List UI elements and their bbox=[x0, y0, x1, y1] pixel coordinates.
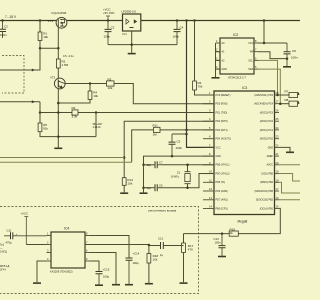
resistor R3 bbox=[107, 78, 115, 91]
dashed box: left connector (cut off) bbox=[2, 56, 24, 94]
wire VT2 base to R3 bbox=[65, 83, 107, 85]
ground IC3 pin22 bbox=[286, 152, 294, 154]
wire R17 top lead bbox=[183, 234, 185, 243]
ground R18 bbox=[145, 283, 153, 285]
svg-text:WP: WP bbox=[250, 51, 254, 54]
ground C14 bbox=[125, 284, 133, 286]
crystal Z1 bbox=[171, 165, 191, 188]
wire +VCC to IC4 pin 2 bbox=[26, 244, 46, 246]
wire IC1 ground pin bbox=[131, 31, 133, 53]
ground IC2 inputs bbox=[212, 77, 220, 79]
wire IC2 pins 1-4 to ground bus bbox=[215, 43, 217, 77]
svg-text:IC4: IC4 bbox=[64, 227, 69, 231]
IC U: IC3 ATmega8 body bbox=[214, 91, 275, 215]
IC3 pin 26 ((ADC3) PC3) bbox=[275, 112, 280, 114]
wire IC3 pin 22 GND bbox=[279, 147, 290, 151]
wire R4 top lead bbox=[89, 84, 91, 92]
capacitor C7 bbox=[147, 161, 164, 169]
wire R1 bottom lead bbox=[39, 41, 41, 49]
junction +5V rail/IC3 VCC line bbox=[185, 19, 188, 22]
capacitor C5 bbox=[169, 134, 183, 156]
svg-text:100μ: 100μ bbox=[103, 275, 110, 279]
resistor R4 bbox=[88, 91, 98, 100]
svg-text:—: — bbox=[0, 247, 3, 250]
junction R1/gate node bbox=[39, 47, 42, 50]
wire: +7..18V input rail (top horizontal) bbox=[0, 20, 300, 22]
wire IC2 WP (pin 7) to ground net bbox=[259, 52, 288, 59]
wire VT2 emitter down bbox=[57, 89, 59, 148]
transistor VT2 (NPN) bbox=[50, 76, 65, 89]
capacitor C12 bbox=[158, 236, 164, 257]
svg-text:10k: 10k bbox=[127, 181, 132, 185]
resistor R13 bbox=[122, 178, 133, 186]
IC3 pin 23 ((ADC0) PC0) bbox=[275, 138, 280, 140]
junction rail/R6 pullup bbox=[193, 19, 196, 22]
svg-text:+C15: +C15 bbox=[103, 268, 110, 272]
wire R6 to IC3 pin 1 (RESET) bbox=[195, 90, 215, 95]
svg-text:10k: 10k bbox=[153, 257, 158, 261]
IC3 pin 14 (PB0 (ICP1)) bbox=[203, 208, 214, 210]
svg-text:PD1 (TXD): PD1 (TXD) bbox=[216, 111, 228, 114]
svg-text:+C14: +C14 bbox=[133, 252, 140, 256]
svg-text:C7: C7 bbox=[159, 161, 163, 165]
ground IC4 pin4 bbox=[33, 282, 41, 284]
junction pin4 drop/left line bbox=[123, 156, 126, 159]
IC3 pin 9 (PB6 (XTAL1)) bbox=[203, 164, 214, 166]
capacitor C13 bbox=[214, 234, 226, 256]
svg-text:100n: 100n bbox=[0, 33, 7, 37]
svg-text:R9: R9 bbox=[72, 106, 76, 110]
wire R3 to IC3 pin 2 bbox=[114, 84, 214, 104]
svg-text:(ADC1) PC1: (ADC1) PC1 bbox=[260, 129, 274, 132]
svg-text:KA2209 (TDA2822): KA2209 (TDA2822) bbox=[50, 270, 73, 274]
svg-text:(ADC5/SCL) PC5: (ADC5/SCL) PC5 bbox=[254, 94, 273, 97]
ground R13 bbox=[120, 192, 128, 194]
svg-text:C11: C11 bbox=[7, 229, 12, 233]
ground C8 bbox=[283, 66, 291, 68]
transistor VT1 (P-MOSFET FQU11P06) bbox=[48, 11, 67, 28]
IC3 pin 20 (AVCC) bbox=[275, 164, 280, 166]
wire IC3 pin 27 SDA with pullup bbox=[279, 103, 289, 105]
node +VCC label at IC4 bbox=[21, 212, 29, 245]
svg-text:1.5M: 1.5M bbox=[62, 63, 69, 67]
junction R4/base line bbox=[89, 82, 92, 85]
wire IC3 pin 16 to edge bbox=[279, 199, 300, 201]
svg-text:PD5 (T1): PD5 (T1) bbox=[216, 181, 226, 184]
wire VT1 gate lead bbox=[57, 26, 59, 48]
junction R1/top rail bbox=[39, 19, 42, 22]
resistor R11 bbox=[153, 124, 161, 137]
svg-text:C12: C12 bbox=[158, 236, 164, 240]
IC4 pin 7 bbox=[85, 244, 90, 246]
svg-text:100n: 100n bbox=[176, 146, 183, 150]
wire R5 bottom to emitter/ground run bbox=[40, 132, 96, 137]
junction pin5/+5V rail bbox=[185, 129, 188, 132]
wire R17 bottom lead bbox=[183, 253, 185, 283]
wire crystal ground leg bbox=[143, 165, 145, 193]
svg-text:VT1: VT1 bbox=[48, 19, 54, 23]
IC3 pin 2 (PD0 (RXD)) bbox=[203, 103, 214, 105]
junction crystal bottom/pin10 line bbox=[186, 186, 189, 189]
svg-text:PC6 (RESET): PC6 (RESET) bbox=[216, 94, 231, 97]
svg-text:0.5...0.1s: 0.5...0.1s bbox=[63, 54, 74, 58]
resistor R1 bbox=[38, 32, 48, 41]
ground IC4 pin6 bbox=[112, 284, 120, 286]
wire R4 to emitter bbox=[58, 100, 90, 104]
svg-text:Гр1: Гр1 bbox=[0, 243, 5, 247]
IC3 pin 8 (GND) bbox=[203, 155, 214, 157]
junction C13/audio line bbox=[221, 232, 224, 235]
resistor R9 bbox=[72, 106, 79, 119]
wire R18 bottom lead bbox=[148, 263, 150, 283]
junction rail/IC2 VCC drop bbox=[263, 19, 266, 22]
junction pin3 line/R5 bbox=[39, 111, 42, 114]
wire R6 top lead bbox=[194, 21, 196, 82]
ground IC1 bbox=[128, 53, 136, 55]
svg-text:VCC: VCC bbox=[216, 146, 221, 149]
junction crystal top/pin9 line bbox=[186, 164, 189, 167]
svg-text:3.3k: 3.3k bbox=[72, 115, 78, 119]
voltage regulator IC1 LP2950-5.0 bbox=[122, 10, 141, 37]
ground crystal bbox=[140, 192, 148, 194]
capacitor C11 electrolytic bbox=[4, 229, 47, 245]
svg-text:IC1: IC1 bbox=[123, 32, 128, 36]
+5V arrow R8 bbox=[298, 101, 300, 104]
IC3 pin 24 ((ADC1) PC1) bbox=[275, 129, 280, 131]
svg-text:C4: C4 bbox=[180, 25, 184, 29]
wire SCL from IC2 pin 6 to IC3 pin 28 bbox=[259, 60, 278, 95]
arrowhead signal 1 bbox=[32, 69, 35, 72]
IC3 pin 19 ((SCK) PB5) bbox=[275, 173, 280, 175]
junction gate/R2 node bbox=[57, 47, 60, 50]
svg-text:(ADC3) PC3: (ADC3) PC3 bbox=[260, 111, 274, 114]
svg-text:FQU11P06: FQU11P06 bbox=[52, 11, 67, 15]
wire R13 bottom lead bbox=[123, 185, 125, 192]
wire gate node horizontal bbox=[40, 47, 58, 49]
wire C3-C4 bottom bbox=[108, 44, 177, 46]
resistor R17 body bbox=[182, 243, 194, 253]
svg-text:C5: C5 bbox=[177, 140, 181, 144]
wire IC3 pin 18 to edge bbox=[279, 182, 300, 193]
dashed box: optional voice-call module bbox=[0, 207, 199, 294]
IC4 pin 4 bbox=[47, 260, 52, 262]
junction pin3 line/branch down bbox=[95, 111, 98, 114]
IC2 pin 5 (SDA) bbox=[254, 68, 259, 70]
svg-text:R11: R11 bbox=[153, 124, 159, 128]
svg-text:22p: 22p bbox=[147, 163, 152, 167]
IC3 pin 13 (PD7 (AIN1)) bbox=[203, 199, 214, 201]
svg-text:SDA: SDA bbox=[248, 68, 253, 71]
IC2 pin 7 (WP) bbox=[254, 51, 259, 53]
IC3 pin 17 ((MOSI/OC2) PB3) bbox=[275, 190, 280, 192]
wire signal 1 from connector bbox=[0, 48, 40, 70]
ground C13 bbox=[218, 256, 226, 258]
svg-text:PB6 (XTAL1): PB6 (XTAL1) bbox=[216, 164, 230, 167]
wire XTAL2 line (pin 10) bbox=[144, 187, 156, 189]
IC4 pin 8 bbox=[85, 235, 90, 237]
resistor R8 bbox=[285, 98, 298, 106]
svg-text:R7: R7 bbox=[285, 89, 289, 93]
svg-text:1M: 1M bbox=[153, 133, 158, 137]
svg-text:C6: C6 bbox=[159, 184, 163, 188]
junction SDA/pin27 bbox=[279, 102, 282, 105]
junction C2/top rail bbox=[1, 19, 4, 22]
capacitor C14 electrolytic bbox=[126, 252, 140, 284]
IC3 pin 28 ((ADC5/SCL) PC5) bbox=[275, 94, 280, 96]
wire R11 to left edge line bbox=[132, 130, 154, 162]
svg-text:PD7 (AIN1): PD7 (AIN1) bbox=[216, 199, 228, 202]
capacitor C3 bbox=[104, 21, 115, 45]
IC3 pin 16 ((SS/OC1B) PB2) bbox=[275, 199, 280, 201]
svg-text:PB7 (XTAL2): PB7 (XTAL2) bbox=[216, 173, 230, 176]
wire signal 2 from connector bbox=[0, 101, 40, 103]
wire IC4 pin7 to C12 bbox=[85, 245, 161, 246]
svg-text:(MOSI/OC2) PB3: (MOSI/OC2) PB3 bbox=[255, 190, 274, 193]
svg-text:PD2 (INT0): PD2 (INT0) bbox=[216, 120, 228, 123]
capacitor C6 bbox=[147, 184, 164, 192]
svg-text:IC2: IC2 bbox=[233, 33, 238, 37]
svg-text:100μ: 100μ bbox=[133, 261, 140, 265]
svg-text:R8: R8 bbox=[285, 98, 289, 102]
svg-text:LP2950-5.0: LP2950-5.0 bbox=[122, 10, 137, 14]
svg-text:ЗП-4: ЗП-4 bbox=[0, 267, 6, 271]
IC4 pin 5 bbox=[85, 260, 90, 262]
IC2 pin 3 (A2) bbox=[216, 59, 221, 61]
svg-text:1μ: 1μ bbox=[160, 253, 164, 257]
wire IC3 pin 28 SCL with pullup bbox=[279, 94, 289, 96]
svg-text:4.23-2k: 4.23-2k bbox=[93, 126, 102, 129]
IC2 pin 8 (VCC) bbox=[254, 42, 259, 44]
node +VCC label at regulator bbox=[103, 8, 115, 21]
wire IC4 pin 6 to ground bbox=[90, 253, 117, 284]
svg-text:IC3: IC3 bbox=[242, 86, 247, 90]
junction pin3 line/emitter line bbox=[57, 111, 60, 114]
wire arrow2 drop to pin3 line bbox=[39, 102, 41, 113]
svg-text:(ADC4/SDA) PC4: (ADC4/SDA) PC4 bbox=[254, 103, 274, 106]
wire to left edge y162 bbox=[0, 161, 132, 163]
ground C15 bbox=[95, 284, 103, 286]
svg-text:10k: 10k bbox=[93, 94, 98, 98]
wire R1 top lead bbox=[39, 21, 41, 33]
IC3 pin 6 (PD4 (XCK/T0)) bbox=[203, 138, 214, 140]
IC U: IC2 AT24C512 EEPROM body bbox=[220, 38, 254, 74]
svg-text:GND: GND bbox=[268, 146, 274, 149]
wire IC3 pin 15 audio out bbox=[238, 208, 280, 233]
svg-text:100n: 100n bbox=[104, 34, 111, 38]
svg-text:7...18 V: 7...18 V bbox=[5, 15, 17, 19]
svg-text:PD6 (AIN0): PD6 (AIN0) bbox=[216, 190, 228, 193]
IC3 pin 5 (PD3 (INT1)) bbox=[203, 129, 214, 131]
svg-text:(ADC0) PC0: (ADC0) PC0 bbox=[260, 138, 274, 141]
wire IC3 pin 20 AVCC to edge bbox=[279, 164, 300, 166]
resistor R5 bbox=[38, 123, 48, 132]
capacitor C4 bbox=[173, 21, 184, 45]
IC4 pin 2 bbox=[47, 244, 52, 246]
wire IC3 pin 8 GND run bbox=[144, 156, 215, 165]
svg-text:GND: GND bbox=[222, 68, 228, 71]
wire IC2 VCC (pin 8) bbox=[259, 42, 288, 44]
svg-text:Z1: Z1 bbox=[177, 171, 181, 175]
IC3 pin 10 (PB7 (XTAL2)) bbox=[203, 173, 214, 175]
IC3 pin 1 (PC6 (RESET)) bbox=[203, 94, 214, 96]
svg-text:МГВ 1Д: МГВ 1Д bbox=[0, 264, 9, 268]
svg-text:1k: 1k bbox=[230, 231, 234, 235]
wire XTAL1 line (pin 9) bbox=[144, 164, 156, 166]
svg-text:PD3 (INT1): PD3 (INT1) bbox=[216, 129, 228, 132]
svg-text:10k: 10k bbox=[43, 35, 48, 39]
IC3 pin 25 ((ADC2) PC2) bbox=[275, 120, 280, 122]
IC3 pin 18 ((MISO) PB4) bbox=[275, 181, 280, 183]
svg-text:AREF: AREF bbox=[267, 155, 274, 158]
IC3 pin 27 ((ADC4/SDA) PC4) bbox=[275, 103, 280, 105]
wire branch x96 up to pin3 line bbox=[95, 113, 97, 137]
capacitor C2 bbox=[0, 21, 8, 39]
svg-text:100n: 100n bbox=[215, 240, 222, 244]
resistor R18 body bbox=[147, 254, 158, 264]
IC U: IC4 KA2209 audio amplifier body bbox=[51, 232, 85, 268]
svg-text:470μ: 470μ bbox=[6, 241, 13, 245]
wire R18 top lead bbox=[148, 245, 150, 254]
capacitor C8 bbox=[284, 43, 299, 66]
wire C5 top to rail bbox=[172, 133, 187, 135]
IC4 pin 1 bbox=[47, 235, 52, 237]
svg-text:GND: GND bbox=[216, 155, 222, 158]
resistor R7 bbox=[285, 89, 298, 97]
junction SCL/pin28 bbox=[276, 94, 279, 97]
wire SDA from IC2 pin 5 to IC3 pin 27 bbox=[259, 69, 281, 104]
resistor R16 bbox=[229, 228, 238, 237]
resistor R2 bbox=[56, 59, 68, 68]
IC4 pin 6 bbox=[85, 252, 90, 254]
IC3 pin 22 (GND) bbox=[275, 146, 280, 148]
wire +5V drop to IC2 pin 8 bbox=[263, 21, 265, 44]
wire R2 to VT2 collector bbox=[57, 68, 59, 78]
wire to left edge y157.5 bbox=[0, 157, 124, 159]
wire C12 to R17 bbox=[163, 245, 183, 247]
svg-text:PD0 (RXD): PD0 (RXD) bbox=[216, 103, 228, 106]
junction R5 run/emitter line bbox=[57, 135, 60, 138]
svg-text:91k: 91k bbox=[43, 126, 48, 130]
svg-text:16 МГц: 16 МГц bbox=[171, 175, 180, 179]
IC3 pin 12 (PD6 (AIN0)) bbox=[203, 190, 214, 192]
capacitor C15 electrolytic bbox=[96, 268, 110, 285]
wire R16 to R17 node bbox=[184, 233, 230, 235]
junction gnd run/C7 line bbox=[142, 164, 145, 167]
svg-text:Mega8: Mega8 bbox=[238, 220, 248, 224]
ground R17 bbox=[180, 282, 188, 284]
junction gnd leg/C6 line bbox=[142, 186, 145, 189]
wire pin 5 line left of rail bbox=[160, 129, 187, 131]
IC3 pin 11 (PD5 (T1)) bbox=[203, 181, 214, 183]
svg-text:470: 470 bbox=[188, 247, 193, 251]
svg-text:(MISO) PB4: (MISO) PB4 bbox=[260, 181, 274, 184]
svg-text:(SCK) PB5: (SCK) PB5 bbox=[261, 173, 273, 176]
resistor R6 reset pullup bbox=[193, 81, 203, 90]
svg-text:PB0 (ICP1): PB0 (ICP1) bbox=[216, 207, 228, 210]
IC3 pin 7 (VCC) bbox=[203, 146, 214, 148]
svg-text:(OC1A) PB1: (OC1A) PB1 bbox=[260, 207, 274, 210]
svg-text:(SS/OC1B) PB2: (SS/OC1B) PB2 bbox=[256, 199, 274, 202]
IC2 pin 6 (SCL) bbox=[254, 59, 259, 61]
IC2 pin 4 (GND) bbox=[216, 68, 221, 70]
svg-text:VCC: VCC bbox=[248, 42, 253, 45]
IC3 pin 21 (AREF) bbox=[275, 155, 280, 157]
IC3 pin 3 (PD1 (TXD)) bbox=[203, 112, 214, 114]
junction R4/emitter line bbox=[57, 102, 60, 105]
svg-text:VT2: VT2 bbox=[50, 76, 56, 80]
junction C5 bottom/gnd run bbox=[171, 155, 174, 158]
wire R5 top lead bbox=[39, 113, 41, 124]
junction C4/top rail bbox=[176, 19, 179, 22]
junction R18/input line bbox=[148, 244, 151, 247]
svg-text:0.5ГД: 0.5ГД bbox=[0, 250, 7, 254]
IC3 pin 15 ((OC1A) PB1) bbox=[275, 208, 280, 210]
IC2 pin 1 (A0) bbox=[216, 42, 221, 44]
wire IC3 pin 19 to edge bbox=[279, 174, 300, 182]
junction IC2 VCC bbox=[263, 42, 266, 45]
svg-text:70k: 70k bbox=[198, 84, 203, 88]
svg-text:узел речевого вызова: узел речевого вызова bbox=[148, 208, 177, 212]
IC4 pin 3 bbox=[47, 252, 52, 254]
svg-text:C2: C2 bbox=[4, 25, 8, 29]
wire IC4 pin 4 to ground bbox=[37, 261, 47, 282]
svg-text:+VCC: +VCC bbox=[21, 212, 29, 216]
svg-text:+: + bbox=[16, 232, 18, 236]
arrowhead signal 2 bbox=[32, 100, 35, 103]
wire IC3 pin 3 network line bbox=[40, 112, 72, 114]
junction C3/top rail bbox=[107, 19, 110, 22]
svg-text:10k: 10k bbox=[108, 86, 113, 90]
junction C5/+5V rail bbox=[185, 133, 188, 136]
IC3 pin 4 (PD2 (INT0)) bbox=[203, 120, 214, 122]
svg-text:SCL: SCL bbox=[248, 59, 253, 62]
wire IC3 pin 5 line bbox=[187, 129, 215, 131]
IC2 pin 2 (A1) bbox=[216, 51, 221, 53]
svg-text:C8: C8 bbox=[292, 49, 296, 53]
svg-text:+5V ±5%: +5V ±5% bbox=[103, 11, 115, 15]
wire IC4 pin 8 to C14 bbox=[90, 236, 130, 258]
svg-text:100n: 100n bbox=[291, 56, 298, 60]
svg-text:AT24C512-2.7: AT24C512-2.7 bbox=[228, 76, 246, 80]
svg-text:AVCC: AVCC bbox=[267, 164, 274, 167]
wire IC4 pin 5 to C15 bbox=[90, 261, 100, 271]
junction IC1 gnd/cap bottom wire bbox=[130, 43, 133, 46]
svg-text:C3: C3 bbox=[111, 25, 115, 29]
svg-text:(ADC2) PC2: (ADC2) PC2 bbox=[260, 120, 274, 123]
junction WP/C8 ground lead bbox=[286, 57, 289, 60]
wire IC3 pin 4 line bbox=[124, 121, 214, 178]
wire +5V rail down to IC3 pin 7 (VCC) bbox=[187, 21, 215, 148]
+5V arrow R7 bbox=[298, 92, 300, 95]
svg-text:PD4 (XCK/T0): PD4 (XCK/T0) bbox=[216, 138, 231, 141]
svg-text:R3: R3 bbox=[108, 78, 112, 82]
wire R2 top lead bbox=[57, 48, 59, 59]
svg-text:100n: 100n bbox=[173, 34, 180, 38]
ground VT2 emitter bbox=[54, 148, 62, 150]
